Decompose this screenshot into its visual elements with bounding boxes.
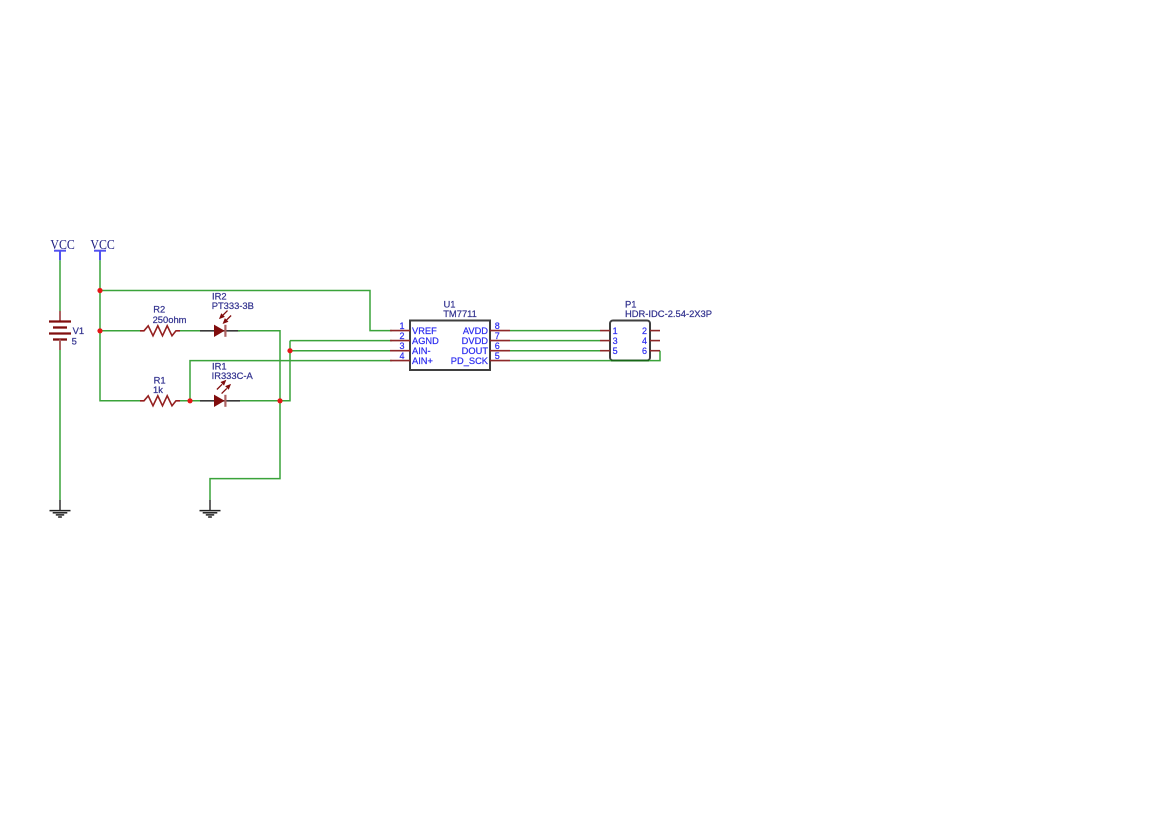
P1 pin 4	[642, 336, 660, 346]
svg-text:V1: V1	[73, 325, 84, 336]
wire VCC bus to R2	[100, 330, 140, 332]
ground symbol GND #2	[200, 500, 221, 517]
junction at VCC bus / top wire	[97, 288, 102, 293]
svg-text:3: 3	[613, 336, 618, 346]
battery V1, value 5	[49, 311, 84, 350]
wire VCC#1 down to battery	[59, 260, 61, 311]
svg-text:1: 1	[613, 326, 618, 336]
P1 pin 5	[600, 346, 618, 356]
svg-text:PD_SCK: PD_SCK	[451, 356, 489, 366]
svg-text:6: 6	[495, 341, 500, 351]
P1 pin 3	[600, 336, 618, 346]
svg-text:1: 1	[399, 321, 404, 331]
wire VCC#2 vertical bus x=100	[100, 260, 140, 401]
wire R1 to IR1 (through junction)	[180, 400, 202, 402]
svg-text:250ohm: 250ohm	[153, 314, 187, 325]
svg-text:2: 2	[399, 331, 404, 341]
svg-text:VREF: VREF	[412, 326, 437, 336]
connector P1 HDR-IDC-2.54-2X3P body	[610, 299, 712, 361]
svg-text:AGND: AGND	[412, 336, 439, 346]
svg-text:VCC: VCC	[50, 237, 74, 252]
svg-text:4: 4	[399, 351, 404, 361]
P1 pin 6	[642, 346, 660, 356]
LED IR1, IR333C-A	[200, 360, 254, 407]
wire net DVDD: U1 pin7 to P1 pin3	[510, 340, 600, 342]
U1 pin 7 DVDD	[462, 331, 510, 346]
svg-text:HDR-IDC-2.54-2X3P: HDR-IDC-2.54-2X3P	[625, 308, 712, 319]
wire battery bottom to GND#1	[59, 350, 61, 500]
wire net AIN+: tap up and across to U1 pin4	[190, 361, 392, 401]
wire R2 to IR2	[180, 330, 202, 332]
wire net VREF: top horizontal to U1 pin1	[100, 291, 392, 331]
svg-text:3: 3	[399, 341, 404, 351]
svg-text:AIN-: AIN-	[412, 346, 431, 356]
svg-text:DVDD: DVDD	[462, 336, 489, 346]
svg-text:6: 6	[642, 346, 647, 356]
svg-text:5: 5	[495, 351, 500, 361]
IC U1 TM7711 body	[410, 298, 490, 370]
junction at R1/IR1 anode (AIN+ tap)	[187, 398, 192, 403]
svg-text:TM7711: TM7711	[443, 308, 477, 319]
wire IR2 cathode down to IR1 row	[238, 331, 280, 401]
wire net AIN- to U1 pin3	[290, 350, 392, 352]
svg-text:AIN+: AIN+	[412, 356, 433, 366]
wire IR1 net down to GND #2	[210, 401, 280, 500]
U1 pin 8 AVDD	[463, 321, 510, 336]
U1 pin 1 VREF	[390, 321, 437, 336]
wire net AGND to U1 pin2	[290, 340, 392, 342]
svg-text:8: 8	[495, 321, 500, 331]
svg-text:5: 5	[72, 335, 77, 346]
wire net AVDD: U1 pin8 to P1 pin1	[510, 330, 600, 332]
svg-text:7: 7	[495, 331, 500, 341]
svg-text:4: 4	[642, 336, 647, 346]
resistor R2, 250ohm	[140, 304, 187, 336]
svg-text:1k: 1k	[153, 384, 163, 395]
junction at IR1 cathode / IR2 cathode / gnd	[277, 398, 282, 403]
resistor R1, 1k	[140, 375, 180, 406]
wire net PD_SCK: U1 pin5 under P1 to pin6	[510, 351, 660, 361]
photodiode IR2, PT333-3B	[200, 291, 254, 337]
wire net DOUT: U1 pin6 to P1 pin5	[510, 350, 600, 352]
svg-text:AVDD: AVDD	[463, 326, 488, 336]
U1 pin 5 PD_SCK	[451, 351, 510, 366]
power symbol VCC #2 (above resistor network)	[90, 237, 114, 260]
P1 pin 2	[642, 326, 660, 336]
svg-text:VCC: VCC	[90, 237, 114, 252]
ground symbol GND #1	[50, 500, 71, 517]
U1 pin 4 AIN+	[390, 351, 433, 366]
svg-text:5: 5	[613, 346, 618, 356]
svg-text:PT333-3B: PT333-3B	[212, 300, 254, 311]
junction at VCC bus / R2 row	[97, 328, 102, 333]
P1 pin 1	[600, 326, 618, 336]
power symbol VCC #1 (above V1)	[50, 237, 74, 260]
wire IR1 row to riser x=290	[240, 341, 290, 401]
U1 pin 2 AGND	[390, 331, 439, 346]
svg-text:2: 2	[642, 326, 647, 336]
svg-text:IR333C-A: IR333C-A	[212, 370, 254, 381]
U1 pin 3 AIN-	[390, 341, 431, 356]
svg-text:DOUT: DOUT	[462, 346, 489, 356]
U1 pin 6 DOUT	[462, 341, 510, 356]
junction at AIN- tap	[287, 348, 292, 353]
